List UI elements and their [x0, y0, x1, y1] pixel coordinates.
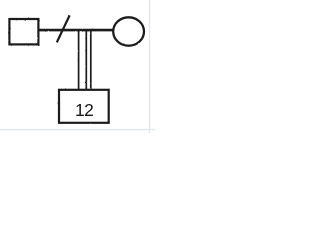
vertical descent line 2: [85, 29, 87, 90]
circle (female symbol): [113, 17, 144, 45]
separation slash: [57, 15, 70, 42]
faint table gridline bottom: [0, 129, 155, 130]
svg-text:12: 12: [75, 100, 93, 120]
square (male symbol): [9, 19, 38, 44]
vertical descent line 3: [90, 29, 92, 90]
children box: [59, 90, 109, 123]
vertical descent line 1: [78, 29, 80, 90]
union line (square to circle): [39, 29, 114, 32]
faint table gridline right: [149, 0, 150, 133]
